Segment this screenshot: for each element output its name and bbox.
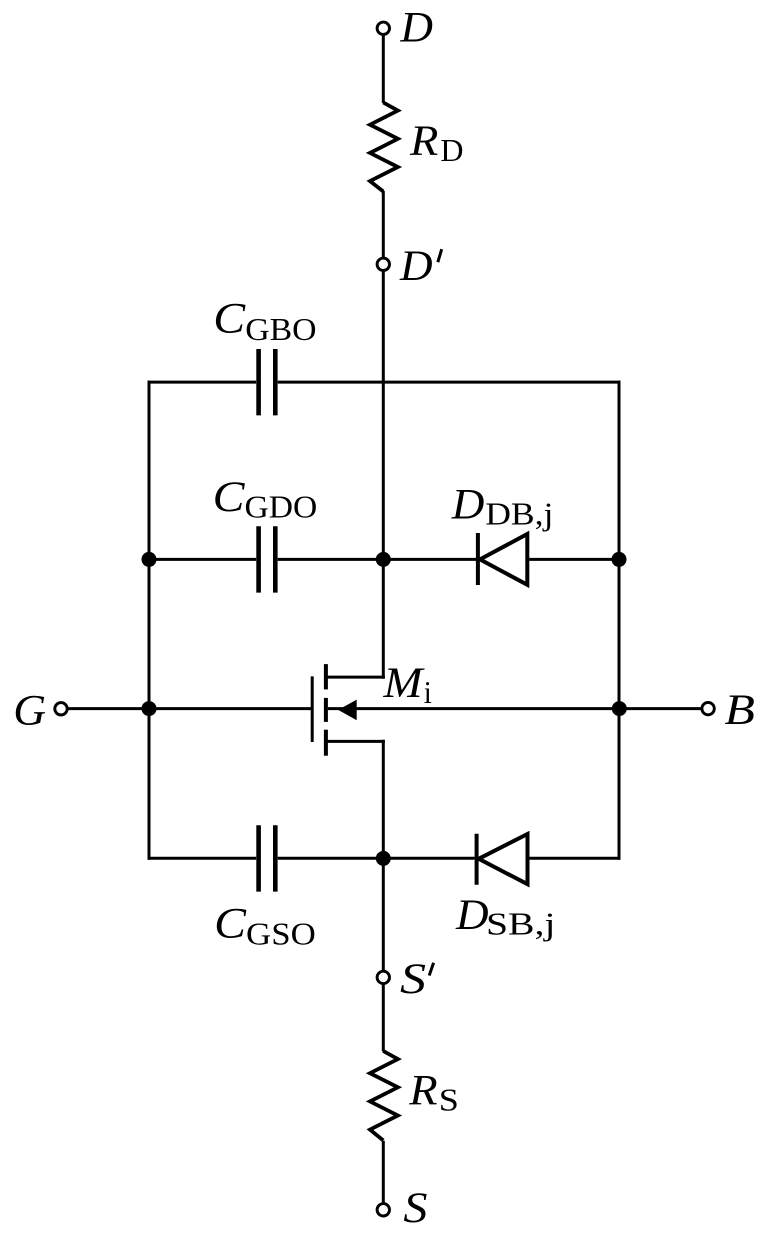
svg-text:R: R — [408, 1066, 437, 1114]
svg-text:C: C — [214, 898, 246, 947]
svg-text:R: R — [409, 116, 438, 164]
svg-text:D: D — [451, 480, 485, 528]
svg-text:D: D — [399, 3, 433, 51]
svg-text:B: B — [725, 686, 755, 734]
svg-text:S: S — [439, 1083, 459, 1118]
svg-text:GSO: GSO — [246, 917, 316, 952]
svg-text:SB,j: SB,j — [486, 906, 555, 942]
svg-text:G: G — [13, 685, 46, 734]
svg-text:D: D — [399, 242, 433, 290]
svg-text:GBO: GBO — [245, 313, 316, 348]
svg-text:DB,j: DB,j — [485, 497, 553, 532]
svg-text:M: M — [382, 659, 425, 707]
svg-text:S: S — [403, 1183, 427, 1231]
svg-text:D: D — [455, 891, 489, 939]
svg-text:S: S — [400, 955, 426, 1003]
svg-text:C: C — [213, 293, 245, 342]
svg-text:GDO: GDO — [244, 490, 317, 525]
svg-text:i: i — [424, 675, 432, 711]
svg-text:C: C — [213, 472, 245, 521]
svg-text:D: D — [440, 132, 463, 168]
